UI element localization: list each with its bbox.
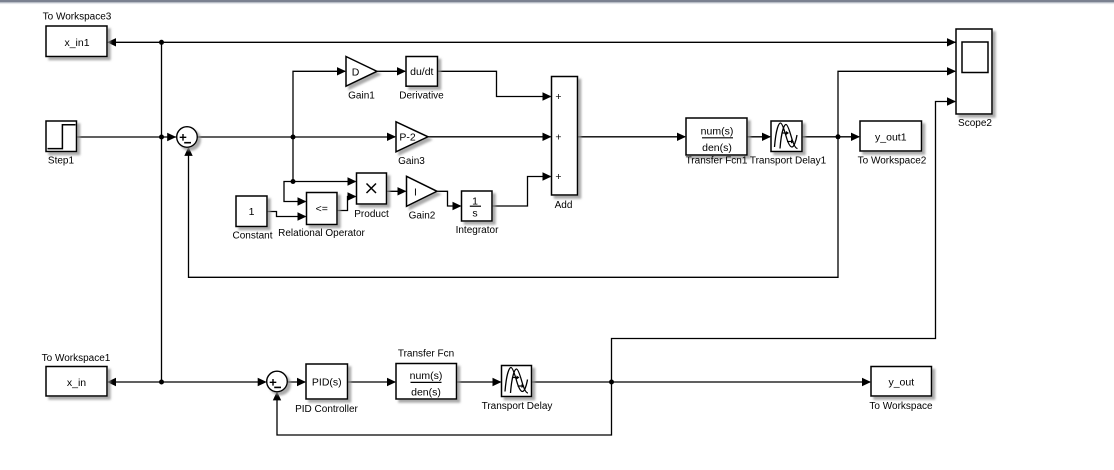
svg-text:den(s): den(s) <box>411 386 441 398</box>
svg-text:Constant: Constant <box>232 231 272 242</box>
arrow into Relational Operator in2 <box>298 212 307 220</box>
svg-text:1: 1 <box>472 195 478 207</box>
svg-text:PID(s): PID(s) <box>312 376 342 388</box>
wire: branch up to Scope2 in3 <box>612 102 956 383</box>
svg-text:x_in1: x_in1 <box>64 37 89 49</box>
block Relational Operator <box>307 193 338 225</box>
svg-text:P-2: P-2 <box>399 132 416 144</box>
svg-text:PID Controller: PID Controller <box>295 404 358 415</box>
block To Workspace (y_out) <box>871 367 932 397</box>
wire: Add out to Transfer Fcn1 <box>578 136 686 138</box>
wire: bottom line to x_in <box>108 381 162 383</box>
arrow into Product in2 <box>348 192 357 200</box>
arrow into Scope2 in3 <box>947 97 956 105</box>
wire: branch up to Scope2 in2 <box>838 71 955 137</box>
svg-text:To Workspace2: To Workspace2 <box>858 156 927 167</box>
wire: Gain3 to Add in2 <box>428 136 551 138</box>
svg-text:+: + <box>555 131 561 143</box>
block Transport Delay <box>502 366 532 397</box>
svg-text:x_in: x_in <box>67 377 86 389</box>
wire: Derivative to Add in1 <box>438 71 551 96</box>
block To Workspace2 (y_out1) <box>860 121 922 151</box>
svg-text:Scope2: Scope2 <box>958 118 992 129</box>
arrow into Scope2 in2 <box>947 67 956 75</box>
arrow into y_out <box>862 378 871 386</box>
svg-text:Integrator: Integrator <box>456 225 499 236</box>
svg-text:Step1: Step1 <box>48 156 75 167</box>
wire: branch down to Product in1 <box>293 137 356 182</box>
wire: branch to Relational Operator in1 <box>284 182 306 202</box>
wire: Sum1 out to Gain3 <box>197 136 395 138</box>
junction node Transport Delay out <box>609 380 614 385</box>
wire: Product to Gain2 <box>387 190 406 192</box>
arrow into y_out1 <box>851 133 860 141</box>
svg-text:I: I <box>414 187 417 199</box>
sum junction Sum2 <box>267 371 288 392</box>
wire: Transfer Fcn to Transport Delay <box>457 381 501 383</box>
wire: Sum2 to PID Controller <box>288 381 306 383</box>
arrow into Sum2 from feedback <box>273 391 281 400</box>
arrow into Add in1 <box>543 92 552 100</box>
block To Workspace3 (x_in1) <box>46 26 107 57</box>
arrow into Sum1 <box>167 133 176 141</box>
arrow into Derivative <box>397 67 406 75</box>
wire: Gain1 to Derivative <box>377 70 405 72</box>
block To Workspace1 (x_in) <box>46 367 107 397</box>
gain Gain1 (D) <box>346 57 377 87</box>
svg-text:+: + <box>555 91 561 103</box>
arrow into x_in <box>107 378 116 386</box>
svg-text:Transfer Fcn: Transfer Fcn <box>398 349 454 360</box>
block Integrator (1/s) <box>462 191 493 221</box>
block Add <box>552 77 578 196</box>
arrow into Sum2 <box>258 378 267 386</box>
arrow into Relational Operator in1 <box>298 197 307 205</box>
svg-text:Transport Delay: Transport Delay <box>482 401 553 412</box>
wire: top line from x_in1 to Scope2 in1 <box>107 41 956 43</box>
wire: feedback to Sum2 <box>277 382 612 435</box>
svg-text:+: + <box>555 171 561 183</box>
svg-text:du/dt: du/dt <box>410 66 433 78</box>
svg-text:Transfer Fcn1: Transfer Fcn1 <box>686 156 748 167</box>
svg-text:1: 1 <box>249 206 255 218</box>
svg-text:y_out1: y_out1 <box>875 132 907 144</box>
arrow into Scope2 in1 <box>947 38 956 46</box>
block Product <box>357 173 387 204</box>
arrow into Transfer Fcn <box>387 378 396 386</box>
arrow into x_in1 <box>107 38 116 46</box>
gain Gain3 (P-2) <box>396 122 428 152</box>
wire: Transfer Fcn1 to Transport Delay1 <box>747 136 770 138</box>
block Transport Delay1 <box>771 121 802 152</box>
wire: Integrator to Add in3 <box>492 177 551 207</box>
wire: feedback to Sum1 <box>189 137 839 277</box>
svg-text:Add: Add <box>555 200 573 211</box>
arrow into Transport Delay1 <box>762 133 771 141</box>
svg-text:Gain1: Gain1 <box>348 91 375 102</box>
svg-text:Gain3: Gain3 <box>398 156 425 167</box>
arrow into Gain1 <box>337 67 346 75</box>
svg-text:Product: Product <box>354 209 389 220</box>
svg-text:D: D <box>352 67 360 79</box>
block PID Controller <box>306 364 348 399</box>
block Derivative <box>406 57 438 87</box>
svg-text:To Workspace3: To Workspace3 <box>43 12 112 23</box>
wire: Gain2 to Integrator <box>437 191 461 206</box>
block Constant <box>236 196 267 227</box>
svg-text:<=: <= <box>316 203 328 215</box>
arrow into PID Controller <box>297 378 306 386</box>
junction node Transport Delay1 out <box>836 134 841 139</box>
junction node Sum1 out <box>291 135 296 140</box>
arrow into Sum1 from feedback <box>184 147 192 156</box>
svg-text:s: s <box>472 208 477 220</box>
junction node at bottom branch <box>159 380 164 385</box>
junction node at top branch <box>159 40 164 45</box>
svg-text:Transport Delay1: Transport Delay1 <box>750 156 827 167</box>
block Step1 <box>46 121 77 152</box>
wire: PID Controller to Transfer Fcn <box>348 381 396 383</box>
junction node Product branch <box>291 179 296 184</box>
wire: Step1 to Sum1 <box>77 136 177 138</box>
wire: Relational Operator to Product in2 <box>337 197 356 211</box>
svg-text:Gain2: Gain2 <box>409 211 436 222</box>
top window border bar <box>0 0 1114 2</box>
arrow into Add in2 <box>543 133 552 141</box>
wire: Transport Delay to y_out <box>532 381 871 383</box>
arrow into Gain3 <box>387 133 396 141</box>
block Transfer Fcn1 <box>686 118 747 155</box>
svg-text:num(s): num(s) <box>701 125 734 137</box>
junction node at Step1 wire <box>159 135 164 140</box>
gain Gain2 (I) <box>407 176 438 206</box>
arrow into Add in3 <box>543 172 552 180</box>
wire: Transport Delay1 to y_out1 <box>802 136 859 138</box>
arrow into Transfer Fcn1 <box>677 133 686 141</box>
svg-text:To Workspace: To Workspace <box>869 401 933 412</box>
arrow into Product in1 <box>348 177 357 185</box>
block Scope2 <box>956 29 992 114</box>
svg-text:To Workspace1: To Workspace1 <box>42 353 111 364</box>
arrow into Gain2 <box>398 187 407 195</box>
svg-text:Derivative: Derivative <box>399 91 444 102</box>
wire: main vertical branch line x=161.5 <box>161 42 163 382</box>
block Transfer Fcn <box>396 364 457 400</box>
arrow into Integrator <box>453 202 462 210</box>
wire: Constant to Relational Operator in2 <box>267 212 306 217</box>
wire: branch up to Gain1 <box>293 71 345 137</box>
wire: bottom line to Sum2 <box>162 381 266 383</box>
sum junction Sum1 <box>177 127 198 148</box>
svg-text:Relational Operator: Relational Operator <box>278 228 365 239</box>
svg-text:den(s): den(s) <box>702 142 732 154</box>
arrow into Transport Delay <box>493 378 502 386</box>
svg-text:y_out: y_out <box>888 377 914 389</box>
svg-text:num(s): num(s) <box>410 370 443 382</box>
